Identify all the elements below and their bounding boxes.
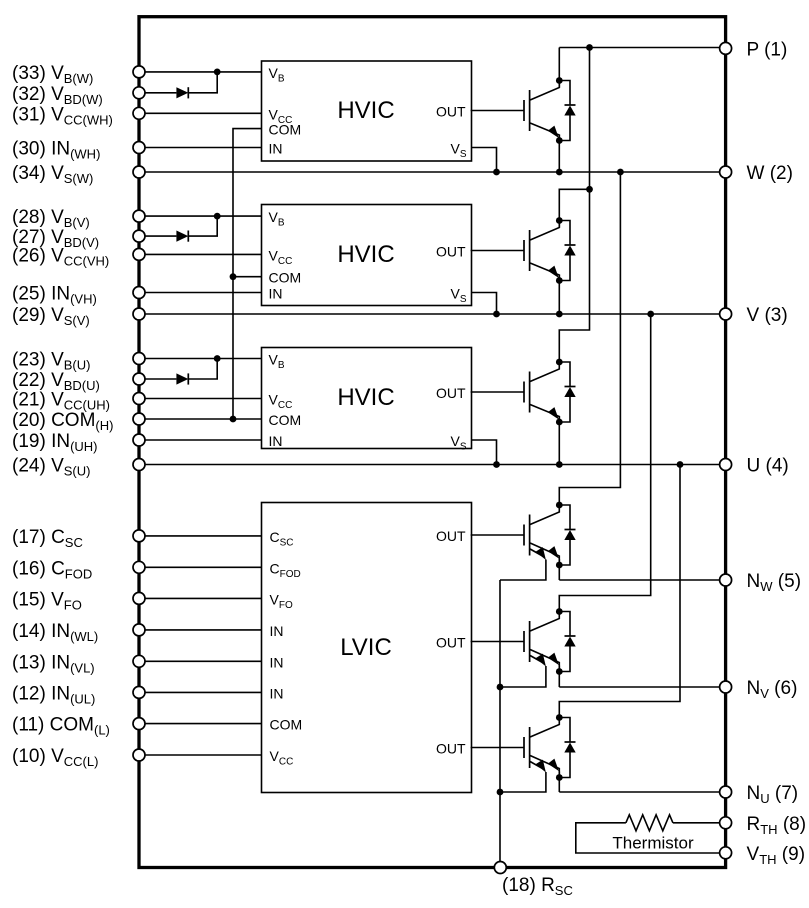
IC pin label IN — [270, 685, 284, 701]
pin label U (4) — [747, 456, 789, 477]
Q3 body bar — [529, 372, 531, 413]
svg-text:OUT: OUT — [436, 528, 466, 544]
wire U2 Vs to V net — [472, 293, 497, 315]
svg-text:HVIC: HVIC — [337, 384, 394, 411]
wire VB pin to U — [139, 358, 262, 360]
Q5 body bar — [529, 621, 531, 662]
Q1 emitter slant — [530, 123, 559, 141]
Q5 gate wire — [471, 641, 524, 643]
IC pin label VCC — [269, 247, 293, 267]
wire P bus — [559, 48, 589, 363]
pin label NW (5) — [747, 571, 802, 594]
Q4 sense emitter slant — [530, 549, 543, 557]
svg-text:NW (5): NW (5) — [747, 571, 802, 594]
svg-text:P (1): P (1) — [747, 39, 788, 60]
pin (19) terminal — [133, 434, 145, 446]
svg-text:IN: IN — [269, 286, 283, 302]
IC pin label IN — [269, 433, 283, 449]
wire COM(H) pin20 — [139, 418, 262, 420]
IC pin label VCC — [269, 106, 293, 126]
pin label (20) COM(H) — [12, 410, 113, 433]
pin (15) terminal — [133, 592, 145, 604]
wire V net VS(V) — [139, 313, 726, 315]
node Q3 collector — [556, 359, 563, 366]
Q6 sense emitter arrow — [536, 760, 546, 773]
Q4 emitter slant — [530, 543, 559, 565]
svg-text:V (3): V (3) — [747, 305, 788, 326]
wire CFOD pin16 — [139, 566, 262, 568]
wire sense bus to RSC — [499, 580, 501, 868]
wire Q6 emitter to NU net — [558, 772, 560, 793]
pin label (12) IN(UL) — [12, 683, 95, 706]
pin (29) terminal — [133, 308, 145, 320]
pin (12) terminal — [133, 686, 145, 698]
pin (23) terminal — [133, 353, 145, 365]
pin (22) terminal — [133, 373, 145, 385]
op-amp U4 LVIC box — [262, 503, 472, 793]
Q4 sense emitter arrow — [536, 547, 546, 560]
wire Q6 sense emitter — [500, 772, 546, 792]
op-amp U1 HVIC(W) box — [262, 61, 472, 161]
pin label (18) RSC — [502, 875, 573, 898]
wire W phase feed — [559, 172, 620, 505]
Q6 gate wire — [471, 747, 524, 749]
IC pin label IN — [269, 141, 283, 157]
pin label P (1) — [747, 39, 788, 60]
pin (25) terminal — [133, 287, 145, 299]
wire Q1 collector to P — [558, 48, 560, 88]
IC pin label IN — [270, 654, 284, 670]
svg-text:HVIC: HVIC — [337, 241, 394, 268]
IC pin label OUT right — [436, 385, 466, 401]
Q5 emitter slant — [530, 650, 559, 672]
pin (30) terminal — [133, 142, 145, 154]
node Q4 emitter — [556, 562, 563, 569]
wire U1 Vs to W net — [472, 148, 497, 173]
svg-text:IN: IN — [270, 654, 284, 670]
wire VB pin to V — [139, 215, 262, 217]
wire Q5 emitter to NV net — [558, 666, 560, 688]
node Q6 emitter — [556, 774, 563, 781]
wire VFO pin15 — [139, 597, 262, 599]
pin label V (3) — [747, 305, 788, 326]
IC pin label COM — [269, 412, 302, 428]
Q3 gate wire — [471, 391, 524, 393]
IC pin label VCC — [270, 748, 294, 768]
svg-text:OUT: OUT — [436, 104, 466, 120]
IC pin label IN — [269, 286, 283, 302]
pin (33) terminal — [133, 66, 145, 78]
pin label NU (7) — [747, 783, 799, 806]
diode D5 freewheel V — [559, 221, 575, 281]
wire VB pin to W — [139, 71, 262, 73]
node VB junction W — [214, 69, 221, 76]
wire IN(VL) pin13 — [139, 660, 262, 662]
U2 label HVIC — [337, 241, 394, 268]
Q4 gate wire — [471, 534, 524, 536]
Q6 emitter slant — [530, 756, 559, 778]
IC pin label VCC — [269, 392, 293, 412]
pin (14) terminal — [133, 624, 145, 636]
svg-text:OUT: OUT — [436, 385, 466, 401]
svg-text:NU (7): NU (7) — [747, 783, 799, 806]
svg-text:COM: COM — [269, 122, 302, 138]
Q4 body bar — [529, 515, 531, 556]
svg-text:COM: COM — [269, 270, 302, 286]
Q2 gate wire — [471, 250, 524, 252]
pin (18 RSC) terminal — [494, 862, 506, 874]
wire Q2 collector to P bus — [559, 189, 589, 227]
wire Q1 emitter to W net — [558, 135, 560, 173]
pin label (24) VS(U) — [12, 456, 90, 479]
Q4 emitter arrow — [548, 546, 559, 558]
pin (21) terminal — [133, 393, 145, 405]
Q3 emitter slant — [530, 405, 559, 423]
node W net Q1 junction — [556, 169, 563, 176]
pin label (19) IN(UH) — [12, 431, 98, 454]
wire U3 Vs to U net — [472, 440, 497, 465]
wire VCC(VH) pin26 — [139, 253, 262, 255]
svg-text:VTH (9): VTH (9) — [747, 844, 806, 867]
IC pin label COM — [270, 717, 303, 733]
svg-text:COM: COM — [269, 412, 302, 428]
wire Q2 emitter to V net — [558, 275, 560, 315]
Q2 collector slant — [530, 221, 559, 241]
Q6 body bar — [529, 727, 531, 768]
node COM junction pin20 — [230, 416, 237, 423]
IC pin label CSC — [270, 529, 294, 549]
wire diode anode V — [139, 235, 176, 237]
wire COM bus — [233, 129, 262, 419]
wire Q3 emitter to U net — [558, 416, 560, 465]
svg-text:IN: IN — [270, 685, 284, 701]
wire IN(VH) pin25 — [139, 292, 262, 294]
node COM junction HVIC2 — [230, 273, 237, 280]
wire CSC pin17 — [139, 535, 262, 537]
svg-text:NV (6): NV (6) — [747, 678, 798, 701]
node sense bus NV junction — [497, 684, 504, 691]
pin label (21) VCC(UH) — [12, 390, 110, 413]
wire thermistor loop — [576, 823, 726, 853]
Q3 collector slant — [530, 362, 559, 382]
diode D3 U — [176, 373, 188, 384]
pin (10) terminal — [133, 749, 145, 761]
wire COM(L) pin11 — [139, 723, 262, 725]
svg-text:Thermistor: Thermistor — [612, 834, 694, 853]
pin (11) terminal — [133, 718, 145, 730]
Q2 body bar — [529, 230, 531, 271]
pin (24) terminal — [133, 459, 145, 471]
pin (4 U) terminal — [720, 459, 732, 471]
svg-text:OUT: OUT — [436, 741, 466, 757]
svg-text:OUT: OUT — [436, 244, 466, 260]
pin (16) terminal — [133, 561, 145, 573]
Q4 gate bar — [523, 525, 525, 546]
IC pin label OUT right — [436, 244, 466, 260]
svg-text:IN: IN — [270, 623, 284, 639]
diode D7 freewheel W — [559, 505, 575, 565]
Q2 emitter arrow — [548, 266, 559, 278]
pin label (28) VB(V) — [12, 207, 90, 230]
wire VCC(L) pin10 — [139, 754, 262, 756]
node Q2 collector — [556, 217, 563, 224]
pin (7 NU) terminal — [720, 786, 732, 798]
svg-text:COM: COM — [270, 717, 303, 733]
IC pin label OUT right — [436, 635, 466, 651]
node V net Vs junction — [493, 311, 500, 318]
Q1 collector slant — [530, 81, 559, 101]
thermistor label — [612, 834, 694, 853]
wire IN(WH) pin30 — [139, 147, 262, 149]
wire diode anode W — [139, 92, 176, 94]
pin label (23) VB(U) — [12, 350, 90, 373]
pin label RTH (8) — [747, 814, 807, 837]
pin (1 P) terminal — [720, 42, 732, 54]
wire Q5 sense emitter — [500, 666, 546, 687]
node Q1 emitter — [556, 137, 563, 144]
diode D2 V — [176, 231, 188, 242]
IC pin label COM — [269, 122, 302, 138]
wire P net — [559, 47, 725, 49]
node VB junction V — [214, 213, 221, 220]
wire Q4 sense emitter — [500, 560, 546, 581]
wire IN(UL) pin12 — [139, 691, 262, 693]
wire diode cathode to riser U — [188, 359, 217, 380]
svg-text:OUT: OUT — [436, 635, 466, 651]
Q4 collector slant — [530, 505, 559, 525]
pin label VTH (9) — [747, 844, 806, 867]
pin label NV (6) — [747, 678, 798, 701]
pin label (16) CFOD — [12, 558, 92, 581]
svg-text:IN: IN — [269, 433, 283, 449]
Q1 emitter arrow — [548, 126, 559, 138]
pin label (11) COM(L) — [12, 715, 110, 738]
pin label (31) VCC(WH) — [12, 104, 113, 127]
svg-text:W (2): W (2) — [747, 163, 793, 184]
pin label (22) VBD(U) — [12, 370, 100, 393]
IC pin label OUT right — [436, 528, 466, 544]
pin label (27) VBD(V) — [12, 227, 99, 250]
pin label (17) CSC — [12, 527, 83, 550]
pin (17) terminal — [133, 530, 145, 542]
U4 label LVIC — [340, 634, 392, 661]
wire V phase feed — [559, 314, 650, 612]
pin (20) terminal — [133, 413, 145, 425]
pin (9 VTH) terminal — [720, 847, 732, 859]
pin label (33) VB(W) — [12, 63, 93, 86]
pin label (29) VS(V) — [12, 305, 90, 328]
pin (31) terminal — [133, 107, 145, 119]
IC pin label OUT right — [436, 741, 466, 757]
node VB junction U — [214, 355, 221, 362]
node U net Q3 junction — [556, 461, 563, 468]
node Q5 collector — [556, 608, 563, 615]
node U net Vs junction — [493, 461, 500, 468]
pin (5 NW) terminal — [720, 574, 732, 586]
Q5 gate bar — [523, 631, 525, 652]
wire VCC(UH) pin21 — [139, 398, 262, 400]
wire diode cathode to riser V — [188, 216, 217, 236]
Q5 emitter arrow — [548, 653, 559, 665]
svg-text:HVIC: HVIC — [337, 97, 394, 124]
wire VCC(WH) pin31 — [139, 112, 262, 114]
pin (2 W) terminal — [720, 166, 732, 178]
IC pin label VS right — [450, 433, 466, 453]
diode D4 freewheel W — [559, 81, 575, 141]
svg-text:U (4): U (4) — [747, 456, 789, 477]
wire NV net — [559, 686, 725, 688]
Q3 gate bar — [523, 382, 525, 403]
U3 label HVIC — [337, 384, 394, 411]
node Q5 emitter — [556, 668, 563, 675]
wire U phase feed — [559, 465, 680, 718]
pin (6 NV) terminal — [720, 681, 732, 693]
IC pin label VB — [269, 209, 285, 229]
pin (27) terminal — [133, 230, 145, 242]
Q1 gate wire — [471, 110, 524, 112]
Q6 emitter arrow — [548, 759, 559, 771]
wire Q4 emitter to NW net — [558, 559, 560, 580]
node Q3 emitter — [556, 419, 563, 426]
diode D6 freewheel U — [559, 362, 575, 422]
U1 label HVIC — [337, 97, 394, 124]
pin (13) terminal — [133, 655, 145, 667]
wire U net VS(U) — [139, 464, 726, 466]
Q2 emitter slant — [530, 263, 559, 281]
node W net Vs junction — [493, 169, 500, 176]
wire IN(WL) pin14 — [139, 629, 262, 631]
pin label (14) IN(WL) — [12, 621, 98, 644]
node Q1 collector — [556, 77, 563, 84]
pin label (25) IN(VH) — [12, 284, 97, 307]
node Q6 collector — [556, 714, 563, 721]
pin (32) terminal — [133, 87, 145, 99]
pin label (30) IN(WH) — [12, 139, 100, 162]
IC pin label VB — [269, 65, 285, 85]
pin (8 RTH) terminal — [720, 817, 732, 829]
Q6 gate bar — [523, 737, 525, 758]
IC pin label OUT right — [436, 104, 466, 120]
svg-text:IN: IN — [269, 141, 283, 157]
svg-text:LVIC: LVIC — [340, 634, 392, 661]
IC pin label CFOD — [270, 560, 301, 580]
diode D1 W — [176, 87, 188, 98]
IC pin label IN — [270, 623, 284, 639]
wire RTH to thermistor — [673, 822, 726, 824]
diode D9 freewheel U — [559, 718, 575, 778]
module boundary — [139, 17, 726, 868]
diode D8 freewheel V — [559, 612, 575, 672]
wire diode cathode to riser W — [188, 72, 217, 93]
IC pin label VS right — [450, 141, 466, 161]
pin label W (2) — [747, 163, 793, 184]
Q3 emitter arrow — [548, 407, 559, 419]
wire diode anode U — [139, 378, 176, 380]
Q1 body bar — [529, 90, 531, 131]
IC pin label VS right — [450, 286, 466, 306]
pin (34) terminal — [133, 166, 145, 178]
node P bus junction — [586, 44, 593, 51]
pin label (15) VFO — [12, 589, 82, 612]
pin (3 V) terminal — [720, 308, 732, 320]
pin (26) terminal — [133, 248, 145, 260]
node W net feed junction — [617, 169, 624, 176]
IC pin label VFO — [270, 591, 293, 611]
Q2 gate bar — [523, 240, 525, 261]
node P bus Q2 junction — [586, 186, 593, 193]
node Q2 emitter — [556, 277, 563, 284]
Q5 sense emitter arrow — [536, 654, 546, 667]
Q5 collector slant — [530, 612, 559, 632]
op-amp U3 HVIC(U) box — [262, 348, 472, 449]
pin label (32) VBD(W) — [12, 84, 103, 107]
Q6 sense emitter slant — [530, 762, 543, 770]
pin label (13) IN(VL) — [12, 652, 95, 675]
IC pin label COM — [269, 270, 302, 286]
pin label (26) VCC(VH) — [12, 245, 109, 268]
wire IN(UH) pin19 — [139, 439, 262, 441]
op-amp U2 HVIC(V) box — [262, 205, 472, 306]
pin (28) terminal — [133, 210, 145, 222]
wire W net VS(W) — [139, 171, 726, 173]
wire COM HVIC2 stub — [233, 276, 262, 278]
Q1 gate bar — [523, 100, 525, 121]
node V net feed junction — [647, 311, 654, 318]
wire NW net — [559, 579, 725, 581]
node V net Q2 junction — [556, 311, 563, 318]
pin label (34) VS(W) — [12, 163, 93, 186]
Q5 sense emitter slant — [530, 656, 543, 664]
Q6 collector slant — [530, 718, 559, 738]
wire NU net — [559, 791, 725, 793]
pin label (10) VCC(L) — [12, 746, 98, 769]
node Q4 collector — [556, 502, 563, 509]
node sense bus NU junction — [497, 789, 504, 796]
resistor RTH thermistor zigzag — [626, 815, 673, 831]
IC pin label VB — [269, 352, 285, 372]
node U net feed junction — [677, 461, 684, 468]
